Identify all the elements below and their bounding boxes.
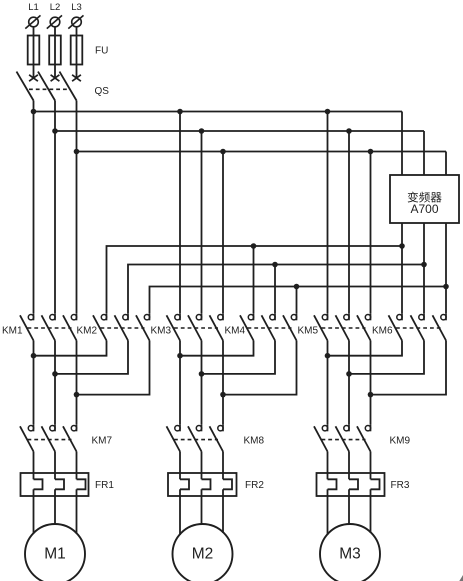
switch QS pole 3 blade [60, 72, 77, 101]
node L1 supply terminal [25, 15, 40, 28]
contactor KM2 linkage dashed line [101, 327, 145, 329]
svg-text:KM6: KM6 [372, 326, 393, 337]
overload relay FR2 box [168, 473, 237, 496]
wire L1 terminal to fuse [33, 27, 35, 36]
contactor KM4 main contact pole 3 [283, 313, 297, 340]
label KM5 [298, 326, 319, 337]
wire bus 2 drop to KM5 pole 2 [348, 131, 350, 313]
wire inverter output 2 down to KM6 pole 2 [423, 223, 425, 313]
node L1 terminal label [28, 2, 39, 13]
contactor KM3 main contact pole 3 [210, 313, 224, 340]
contactor KM4 main contact pole 1 [240, 313, 254, 340]
node bus 1 tap to KM5 group [325, 109, 331, 115]
svg-text:KM8: KM8 [244, 436, 265, 447]
contactor KM9 main contact pole 3 [357, 424, 371, 451]
svg-text:KM5: KM5 [298, 326, 319, 337]
wire bus 1 drop to KM1 pole 1 [33, 112, 35, 314]
wire bus 2 drop to KM3 pole 2 [201, 131, 203, 313]
svg-text:KM3: KM3 [151, 326, 172, 337]
contactor KM8 main contact pole 2 [188, 424, 202, 451]
inverter U1 frequency converter A700 box [390, 175, 459, 223]
switch QS pole 2 blade [38, 72, 55, 101]
wire L3 terminal to fuse [76, 27, 78, 36]
svg-text:M1: M1 [44, 546, 66, 563]
svg-text:KM2: KM2 [77, 326, 98, 337]
contactor KM6 main contact pole 1 [389, 313, 403, 340]
contactor KM7 linkage dashed line [28, 439, 72, 441]
wire bus 1 drop to KM5 pole 1 [327, 112, 329, 314]
node rail 3 tap to KM4 pole 3 [294, 284, 300, 290]
wire fuse to QS pole 2 [54, 65, 56, 79]
contactor KM7 main contact pole 3 [63, 424, 77, 451]
wire KM5 pole 1 output down motor M3 phase 1 [327, 341, 329, 425]
node L3 terminal label [71, 2, 82, 13]
wire fuse to QS pole 3 [76, 65, 78, 79]
label FU [95, 46, 108, 57]
svg-text:L3: L3 [71, 2, 82, 13]
wire inverter output 1 down to KM6 pole 1 [401, 223, 403, 313]
contactor KM5 main contact pole 3 [357, 313, 371, 340]
contactor KM8 main contact pole 3 [210, 424, 224, 451]
node join junction motor M3 phase 2 [346, 371, 352, 377]
label FR1 [95, 480, 114, 491]
node bus 3 tap to KM3 group [220, 149, 226, 155]
wire inverter output 3 down to KM6 pole 3 [445, 223, 447, 313]
overload relay FR3 heater element pole 2 [349, 452, 358, 525]
contactor KM3 linkage dashed line [174, 327, 218, 329]
contactor KM9 linkage dashed line [322, 439, 366, 441]
wire bus 1 (phase 1 supply rail) [34, 111, 403, 113]
contactor KM2 main contact pole 3 [136, 313, 150, 340]
label KM8 [244, 436, 265, 447]
node bus 1 corner junction [31, 109, 37, 115]
node join junction motor M2 phase 2 [199, 371, 205, 377]
svg-text:QS: QS [95, 86, 110, 97]
wire KM3 pole 2 output down motor M2 phase 2 [201, 341, 203, 425]
contactor KM8 main contact pole 1 [167, 424, 181, 451]
contactor KM7 main contact pole 2 [42, 424, 56, 451]
wire KM1 pole 3 output down motor M1 phase 3 [76, 341, 78, 425]
wire KM3 pole 1 output down motor M2 phase 1 [179, 341, 181, 425]
label KM4 [225, 326, 246, 337]
switch QS pole 3 contact cross [72, 75, 81, 81]
label KM6 [372, 326, 393, 337]
wire bus 3 drop to inverter input 3 [445, 152, 447, 176]
node bus 3 corner junction [74, 149, 80, 155]
contactor KM6 main contact pole 2 [411, 313, 425, 340]
contactor KM3 main contact pole 2 [188, 313, 202, 340]
wire bus 2 drop to inverter input 2 [423, 131, 425, 175]
overload relay FR1 box [21, 473, 89, 496]
contactor KM2 main contact pole 2 [115, 313, 129, 340]
contactor KM6 linkage dashed line [396, 327, 441, 329]
overload relay FR2 heater element pole 1 [180, 452, 189, 535]
wire inverter output rail 3 to KM2 pole 3 [150, 287, 447, 314]
wire inverter output rail 2 to KM2 pole 2 [128, 265, 424, 314]
overload relay FR1 heater element pole 3 [77, 452, 86, 534]
svg-text:L1: L1 [28, 2, 39, 13]
node bus 1 tap to KM3 group [177, 109, 183, 115]
wire KM5 pole 3 output down motor M3 phase 3 [370, 341, 372, 425]
contactor KM4 main contact pole 2 [262, 313, 276, 340]
wire bus 3 (phase 3 supply rail) [77, 151, 447, 153]
overload relay FR2 heater element pole 3 [223, 452, 232, 533]
label KM2 [77, 326, 98, 337]
contactor KM1 main contact pole 3 [63, 313, 77, 340]
switch QS pole 1 blade [17, 72, 34, 101]
svg-text:KM1: KM1 [2, 326, 23, 337]
svg-text:KM7: KM7 [92, 436, 113, 447]
motor M1 [25, 524, 85, 581]
wire KM3 pole 3 output down motor M2 phase 3 [222, 341, 224, 425]
node join junction motor M3 phase 3 [368, 392, 374, 398]
svg-text:FR2: FR2 [245, 480, 264, 491]
node bus 2 corner junction [52, 128, 58, 134]
node join junction motor M1 phase 1 [31, 353, 37, 359]
contactor KM5 linkage dashed line [322, 327, 366, 329]
wire bus 3 drop to KM3 pole 3 [222, 152, 224, 314]
wire KM4 pole 3 output joining motor M2 phase 3 [223, 341, 297, 395]
wire KM6 pole 1 output joining motor M3 phase 1 [328, 341, 403, 356]
contactor KM9 main contact pole 2 [336, 424, 350, 451]
label KM7 [92, 436, 113, 447]
wire bus 3 drop to KM1 pole 3 [76, 152, 78, 314]
node L3 supply terminal [68, 15, 83, 28]
node rail 2 tap to KM4 pole 2 [272, 262, 278, 268]
svg-text:KM9: KM9 [390, 436, 411, 447]
switch QS pole 2 contact cross [51, 75, 60, 81]
wire KM2 pole 1 output joining motor M1 phase 1 [34, 341, 107, 356]
contactor KM1 main contact pole 1 [20, 313, 34, 340]
wire rail 3 drop to KM4 pole 3 [296, 287, 298, 314]
wire QS pole 1 down to bus 1 [33, 101, 35, 112]
wire bus 1 drop to inverter input 1 [401, 112, 403, 176]
node bus 3 tap to KM5 group [368, 149, 374, 155]
wire KM4 pole 2 output joining motor M2 phase 2 [202, 341, 276, 374]
motor M2 [173, 524, 233, 581]
node L2 terminal label [50, 2, 61, 13]
label KM1 [2, 326, 23, 337]
svg-text:FR1: FR1 [95, 480, 114, 491]
wire KM6 pole 3 output joining motor M3 phase 3 [371, 341, 447, 395]
wire QS pole 3 down to bus 3 [76, 101, 78, 152]
node rail 1 tap to KM4 pole 1 [251, 243, 257, 249]
switch QS pole 1 contact cross [29, 75, 38, 81]
node join junction motor M2 phase 1 [177, 353, 183, 359]
wire bus 2 drop to KM1 pole 2 [54, 131, 56, 313]
wire rail 2 drop to KM4 pole 2 [274, 265, 276, 314]
wire inverter output rail 1 to KM2 pole 1 [107, 246, 403, 313]
contactor KM2 main contact pole 1 [93, 313, 107, 340]
switch QS linkage dashed line [29, 88, 70, 90]
svg-text:FR3: FR3 [391, 480, 410, 491]
wire bus 2 (phase 2 supply rail) [55, 130, 424, 132]
svg-text:FU: FU [95, 46, 108, 57]
node join junction motor M3 phase 1 [325, 353, 331, 359]
node bus 2 tap to KM3 group [199, 128, 205, 134]
svg-text:KM4: KM4 [225, 326, 246, 337]
contactor KM7 main contact pole 1 [20, 424, 34, 451]
label KM3 [151, 326, 172, 337]
wire QS pole 2 down to bus 2 [54, 101, 56, 132]
overload relay FR2 heater element pole 2 [202, 452, 211, 525]
contactor KM4 linkage dashed line [248, 327, 292, 329]
decor corner mark [459, 575, 463, 581]
wire KM2 pole 3 output joining motor M1 phase 3 [77, 341, 150, 395]
fuse FU pole 1 [28, 36, 40, 65]
overload relay FR3 box [317, 473, 385, 496]
wire KM1 pole 1 output down motor M1 phase 1 [33, 341, 35, 425]
overload relay FR1 heater element pole 1 [34, 452, 43, 534]
wire KM5 pole 2 output down motor M3 phase 2 [348, 341, 350, 425]
contactor KM5 main contact pole 2 [336, 313, 350, 340]
label FR3 [391, 480, 410, 491]
node join junction motor M1 phase 2 [52, 371, 58, 377]
contactor KM1 linkage dashed line [28, 327, 72, 329]
overload relay FR1 heater element pole 2 [55, 452, 64, 525]
wire rail 1 drop to KM4 pole 1 [253, 246, 255, 313]
wire KM4 pole 1 output joining motor M2 phase 1 [180, 341, 254, 356]
label QS [95, 86, 110, 97]
node L2 supply terminal [47, 15, 62, 28]
wire KM2 pole 2 output joining motor M1 phase 2 [55, 341, 128, 374]
contactor KM5 main contact pole 1 [314, 313, 328, 340]
contactor KM6 main contact pole 3 [433, 313, 447, 340]
wire bus 1 drop to KM3 pole 1 [179, 112, 181, 314]
node bus 2 tap to KM5 group [346, 128, 352, 134]
fuse FU pole 2 [49, 36, 61, 65]
contactor KM8 linkage dashed line [174, 439, 218, 441]
svg-text:A700: A700 [410, 202, 438, 216]
wire fuse to QS pole 1 [33, 65, 35, 79]
svg-text:L2: L2 [50, 2, 61, 13]
svg-text:M2: M2 [192, 546, 214, 563]
node rail 3 junction at inverter drop [443, 284, 449, 290]
wire bus 3 drop to KM5 pole 3 [370, 152, 372, 314]
overload relay FR3 heater element pole 3 [371, 452, 380, 533]
fuse FU pole 3 [71, 36, 83, 65]
wire L2 terminal to fuse [54, 27, 56, 36]
node rail 1 junction at inverter drop [399, 243, 405, 249]
overload relay FR3 heater element pole 1 [328, 452, 337, 535]
node join junction motor M2 phase 3 [220, 392, 226, 398]
node join junction motor M1 phase 3 [74, 392, 80, 398]
label KM9 [390, 436, 411, 447]
svg-text:M3: M3 [339, 546, 361, 563]
wire KM6 pole 2 output joining motor M3 phase 2 [349, 341, 424, 374]
node rail 2 junction at inverter drop [421, 262, 427, 268]
contactor KM1 main contact pole 2 [42, 313, 56, 340]
contactor KM3 main contact pole 1 [167, 313, 181, 340]
label FR2 [245, 480, 264, 491]
motor M3 [320, 524, 380, 581]
wire KM1 pole 2 output down motor M1 phase 2 [54, 341, 56, 425]
contactor KM9 main contact pole 1 [314, 424, 328, 451]
